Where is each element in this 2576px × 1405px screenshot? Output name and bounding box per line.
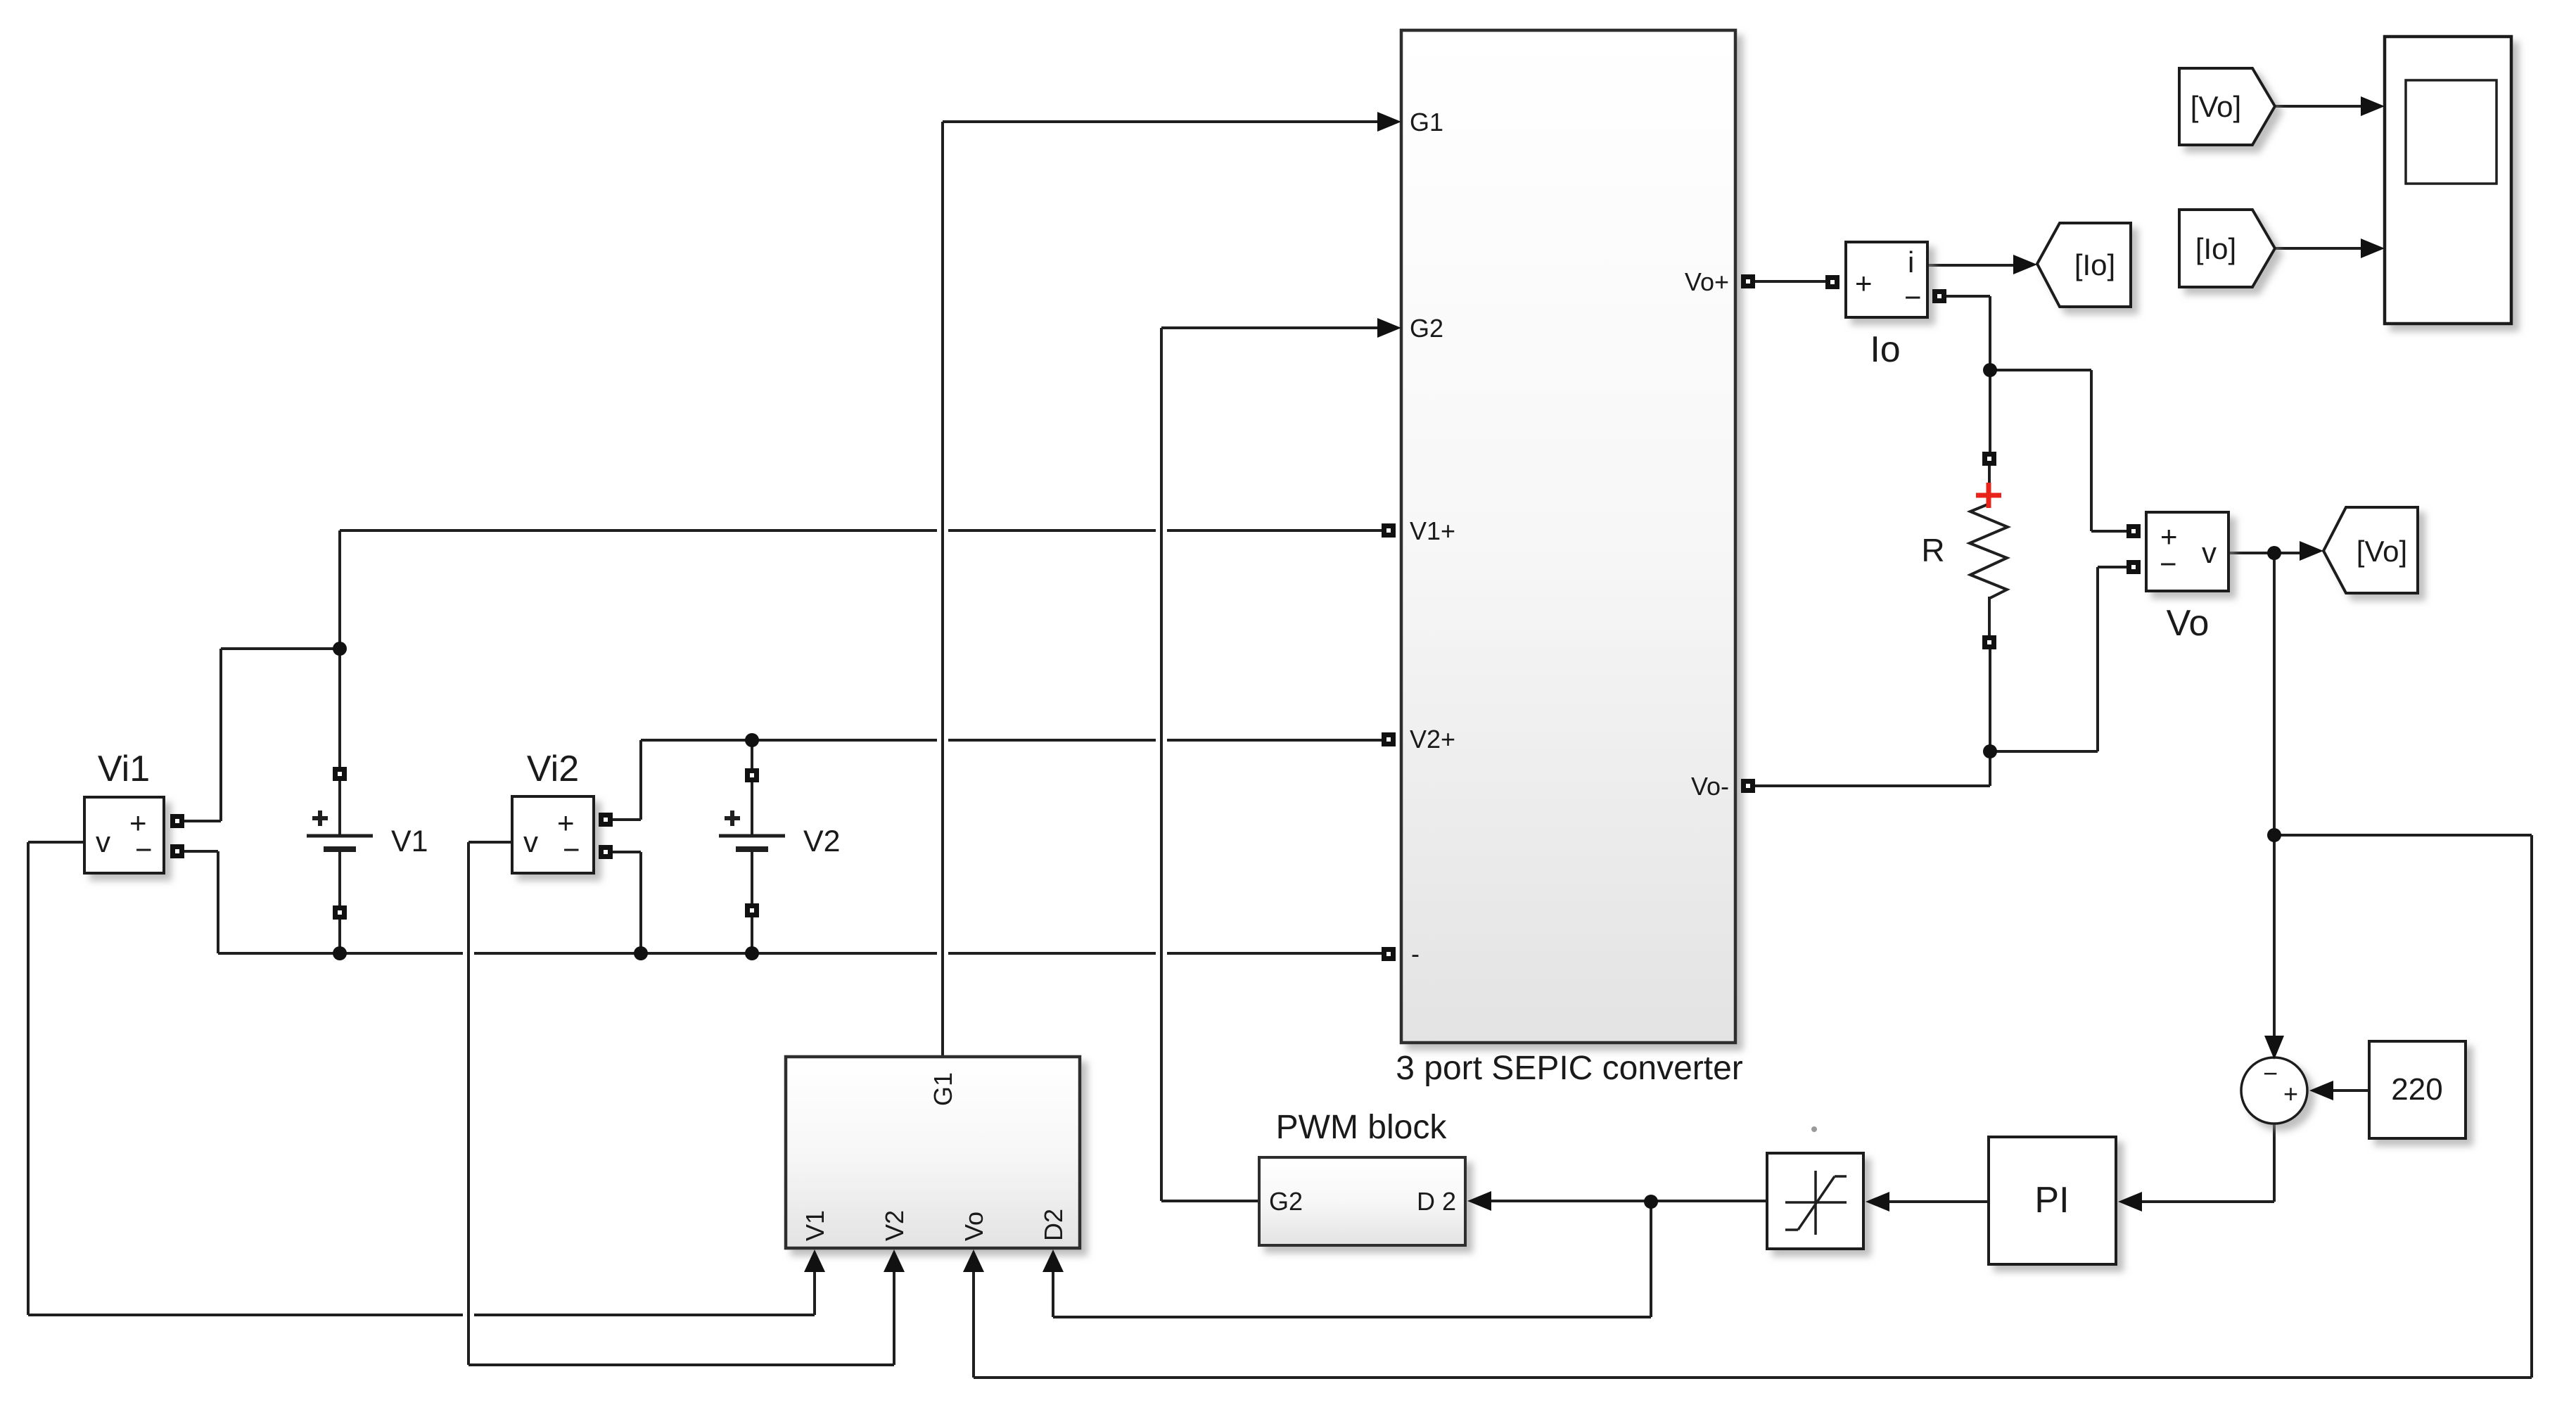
battery V1	[307, 810, 373, 849]
wire From Io to scope	[2275, 247, 2362, 250]
constant 220	[2369, 1041, 2466, 1138]
junction dot V1 bus	[333, 946, 347, 960]
subsystem U1 3 port SEPIC converter	[1401, 30, 1735, 1043]
pad battery V2 bottom	[745, 903, 759, 917]
arrowhead PI in	[2118, 1192, 2142, 1212]
arrowhead into goto Vo	[2300, 541, 2323, 561]
wire battery V1 column lower	[338, 918, 341, 953]
wire V1+ row	[340, 529, 1382, 532]
svg-text:3 port SEPIC converter: 3 port SEPIC converter	[1396, 1050, 1743, 1087]
crossover gap G1 x V1+	[937, 526, 948, 535]
pad Vi1 minus	[170, 844, 184, 858]
svg-text:+: +	[1855, 267, 1873, 300]
pad Vi2 minus	[599, 845, 613, 859]
svg-text:v: v	[523, 825, 538, 858]
wire Io minus link	[1946, 295, 1990, 298]
crossover gap G2 x bus	[1156, 949, 1167, 958]
wire Vo+ link	[1754, 280, 1839, 283]
svg-text:[Vo]: [Vo]	[2191, 90, 2241, 123]
wire Vi1 plus pad link	[184, 820, 221, 822]
arrowhead into goto Io	[2013, 255, 2037, 274]
wire Vi1 v link	[28, 841, 84, 844]
svg-text:+: +	[2283, 1079, 2298, 1108]
pad Vo meas minus	[2127, 560, 2141, 574]
wire battery V1 top lead	[338, 780, 341, 836]
crossover gap G1 x bus	[937, 949, 948, 958]
wire V1 return	[28, 1314, 815, 1316]
voltage measurement Vo	[2146, 512, 2229, 591]
subsystem U2 controller	[786, 1057, 1080, 1248]
pad Vi1 plus	[170, 814, 184, 828]
svg-text:[Vo]: [Vo]	[2357, 535, 2407, 568]
junction dot Vi1 plus tap	[333, 642, 347, 656]
wire V2+ row	[641, 739, 1382, 742]
arrowhead PWM D2	[1467, 1191, 1491, 1211]
voltage measurement Vi1	[84, 797, 164, 873]
svg-text:V2: V2	[803, 825, 841, 858]
arrowhead Vo port	[963, 1250, 984, 1272]
wire sum column	[2273, 553, 2276, 1040]
wire right loop vertical	[2530, 835, 2533, 1378]
battery V2	[719, 810, 785, 849]
svg-text:220: 220	[2391, 1072, 2442, 1107]
wire D2 port vertical	[1052, 1271, 1054, 1317]
pad Vi2 plus	[599, 813, 613, 827]
wire battery V2 top lead	[751, 781, 753, 836]
wire battery V2 column lower	[751, 916, 753, 953]
wire battery V2 column upper	[751, 740, 753, 770]
pad minus port	[1382, 947, 1396, 961]
wire battery V1 column upper	[338, 530, 341, 768]
sum block	[2241, 1057, 2307, 1124]
arrowhead saturation in	[1866, 1192, 1889, 1212]
crossover gap G1 x V2+	[937, 736, 948, 744]
pad Io minus	[1932, 289, 1946, 303]
wire Vo port vertical	[972, 1271, 975, 1378]
svg-text:V2+: V2+	[1410, 725, 1455, 754]
wire Vo minus in vertical	[2096, 567, 2099, 751]
wire Vo return	[974, 1376, 2532, 1379]
wire saturation to PWM	[1487, 1200, 1767, 1202]
pad R bottom	[1982, 635, 1996, 649]
wire Vi1 minus vertical	[217, 851, 219, 953]
arrowhead V1 port	[804, 1250, 825, 1272]
wire 220 to sum	[2328, 1089, 2369, 1092]
wire From Vo to scope	[2275, 105, 2362, 108]
wire sum right branch	[2274, 834, 2532, 837]
wire V1 port vertical	[813, 1271, 816, 1315]
pad Vo+ port	[1741, 274, 1755, 288]
arrowhead G2	[1377, 318, 1401, 338]
svg-text:PWM block: PWM block	[1276, 1109, 1448, 1146]
svg-text:V1+: V1+	[1410, 516, 1455, 545]
saturation block	[1767, 1153, 1863, 1249]
junction dot Vi2 minus bus	[634, 946, 648, 960]
wire junction to Vo plus in	[1990, 369, 2091, 371]
from tag [Vo]	[2179, 68, 2275, 145]
svg-text:Io: Io	[1870, 329, 1900, 370]
svg-text:V1: V1	[391, 825, 428, 858]
wire Vi2 plus vertical	[639, 740, 642, 820]
crossover gap Vi2v x bus	[463, 949, 474, 958]
goto tag [Io]	[2037, 223, 2131, 307]
wire Vo output	[2229, 552, 2302, 554]
resistor R	[1970, 504, 2008, 598]
wire R top lead	[1988, 465, 1991, 507]
arrowhead sum top	[2264, 1036, 2284, 1060]
svg-text:Vi2: Vi2	[527, 749, 579, 789]
svg-text:v: v	[96, 825, 110, 858]
pad battery V1 bottom	[333, 905, 347, 920]
wire Vi2 plus link	[613, 818, 641, 821]
junction dot R bottom branch	[1983, 744, 1997, 758]
scope	[2385, 37, 2511, 324]
wire Vi2 v column	[467, 842, 470, 1365]
wire Vi1 plus vertical	[219, 649, 222, 821]
wire D2 return	[1053, 1316, 1651, 1318]
wire Vi1 plus branch	[221, 647, 340, 650]
wire G1 vertical	[941, 122, 944, 1057]
wire Vi2 minus link	[613, 851, 641, 853]
svg-text:-: -	[1411, 939, 1420, 968]
svg-text:−: −	[2160, 547, 2177, 580]
svg-text:−: −	[563, 833, 580, 866]
wire D2 branch vertical	[1650, 1202, 1652, 1317]
arrowhead G1	[1377, 112, 1401, 132]
wire R column lower	[1989, 649, 1991, 786]
wire G1 row	[943, 120, 1380, 123]
arrowhead sum right	[2309, 1081, 2333, 1100]
pad Vo- port	[1741, 779, 1755, 793]
pad Io plus	[1825, 275, 1839, 289]
pad battery V2 top	[745, 768, 759, 782]
voltage measurement Vi2	[512, 796, 594, 873]
svg-text:V2: V2	[880, 1210, 909, 1241]
arrowhead scope in2	[2361, 239, 2385, 258]
resistor R red plus	[1976, 483, 2001, 508]
svg-text:Vo: Vo	[959, 1212, 988, 1241]
wire R bottom lead	[1988, 597, 1991, 637]
junction dot D2 branch	[1644, 1195, 1658, 1209]
svg-text:D2: D2	[1039, 1209, 1068, 1241]
svg-text:D 2: D 2	[1417, 1187, 1456, 1216]
stray mark	[1811, 1126, 1817, 1132]
wire battery V1 bottom lead	[338, 849, 341, 907]
svg-text:Vi1: Vi1	[98, 749, 150, 789]
junction dot Vo output	[2267, 546, 2281, 560]
svg-text:G1: G1	[929, 1072, 957, 1106]
arrowhead D2 port	[1042, 1250, 1064, 1272]
svg-text:Vo-: Vo-	[1691, 772, 1729, 801]
svg-text:[Io]: [Io]	[2074, 248, 2115, 281]
pad V2+ port	[1382, 732, 1396, 746]
svg-text:V1: V1	[801, 1210, 829, 1241]
arrowhead scope in1	[2361, 96, 2385, 116]
wire V2 port vertical	[893, 1271, 895, 1365]
wire V2 return	[468, 1363, 894, 1366]
wire Vo plus in link	[2091, 530, 2127, 533]
crossover gap G2 x V1+	[1156, 526, 1167, 535]
current measurement Io	[1846, 242, 1927, 317]
svg-text:PI: PI	[2034, 1180, 2069, 1221]
wire Io minus column	[1989, 296, 1991, 453]
junction dot Io minus branch	[1983, 363, 1997, 377]
junction dot sum branch	[2267, 828, 2281, 842]
wire Vo plus in vertical	[2090, 370, 2093, 531]
wire Vi2 minus vertical	[639, 852, 642, 953]
svg-text:−: −	[1904, 281, 1922, 314]
wire sum output vertical	[2273, 1124, 2276, 1202]
from tag [Io]	[2179, 210, 2275, 287]
wire Vo- row	[1754, 784, 1990, 787]
pad battery V1 top	[333, 767, 347, 781]
wire Vi2 v link	[468, 841, 512, 844]
wire G2 vertical	[1160, 328, 1163, 1201]
pad R top	[1982, 452, 1996, 466]
svg-text:G1: G1	[1410, 108, 1443, 136]
svg-text:−: −	[2263, 1059, 2278, 1088]
crossover gap Vi2v x V1 return	[463, 1311, 474, 1319]
svg-text:i: i	[1908, 246, 1914, 279]
svg-text:v: v	[2202, 536, 2217, 569]
wire Vo minus in link	[2098, 566, 2127, 568]
arrowhead V2 port	[884, 1250, 905, 1272]
wire Io output	[1927, 264, 2015, 267]
svg-text:Vo: Vo	[2167, 603, 2210, 644]
svg-text:G2: G2	[1269, 1187, 1303, 1216]
junction dot V2 bus	[745, 946, 759, 960]
wire PI to saturation	[1885, 1200, 1989, 1203]
wire battery V2 bottom lead	[751, 849, 753, 905]
svg-text:[Io]: [Io]	[2195, 232, 2236, 265]
wire G2 row	[1161, 326, 1380, 329]
wire Vi1 v column	[27, 842, 30, 1315]
svg-text:Vo+: Vo+	[1685, 267, 1729, 296]
goto tag [Vo]	[2323, 507, 2418, 593]
wire PWM G2 link	[1161, 1200, 1259, 1202]
svg-text:−: −	[135, 833, 153, 866]
PI controller block	[1989, 1137, 2116, 1264]
pad Vo meas plus	[2127, 524, 2141, 538]
svg-text:G2: G2	[1410, 314, 1443, 343]
crossover gap G2 x V2+	[1156, 736, 1167, 744]
subsystem U3 PWM block	[1259, 1157, 1465, 1245]
svg-text:R: R	[1921, 532, 1944, 568]
wire negative bus	[218, 952, 1382, 955]
pad V1+ port	[1382, 523, 1396, 538]
wire R bottom branch	[1990, 750, 2098, 753]
wire Vi1 minus link	[184, 850, 218, 853]
wire sum to PI	[2138, 1200, 2274, 1203]
junction dot V2 plus tap	[745, 733, 759, 747]
